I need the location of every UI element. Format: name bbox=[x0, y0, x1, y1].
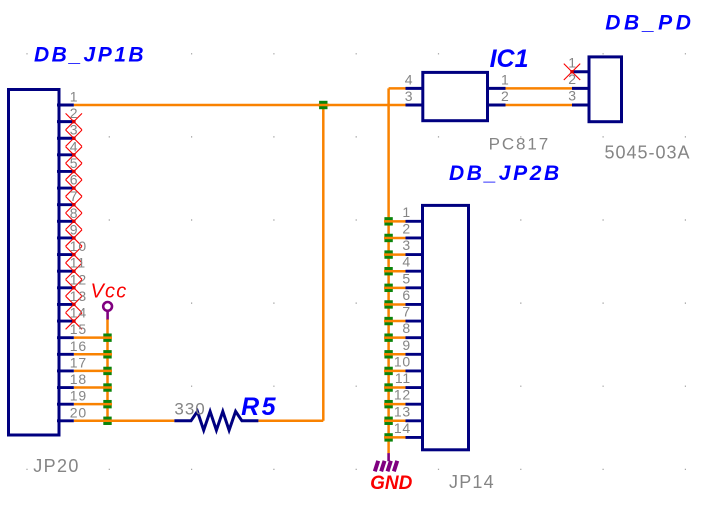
svg-text:11: 11 bbox=[395, 370, 411, 386]
svg-text:2: 2 bbox=[70, 105, 79, 121]
svg-text:20: 20 bbox=[70, 404, 87, 420]
svg-text:1: 1 bbox=[402, 204, 411, 220]
svg-text:7: 7 bbox=[70, 188, 79, 204]
svg-text:4: 4 bbox=[405, 71, 413, 87]
svg-text:6: 6 bbox=[70, 172, 79, 188]
svg-text:18: 18 bbox=[70, 371, 87, 387]
svg-text:1: 1 bbox=[568, 54, 576, 70]
svg-text:12: 12 bbox=[70, 271, 87, 287]
svg-text:Vcc: Vcc bbox=[91, 281, 128, 303]
svg-text:2: 2 bbox=[402, 221, 411, 237]
svg-text:GND: GND bbox=[370, 473, 413, 494]
svg-text:3: 3 bbox=[405, 88, 413, 104]
svg-text:DB_JP2B: DB_JP2B bbox=[449, 162, 562, 185]
svg-text:9: 9 bbox=[402, 337, 411, 353]
svg-text:R5: R5 bbox=[241, 393, 278, 421]
svg-text:10: 10 bbox=[70, 238, 87, 254]
svg-text:JP14: JP14 bbox=[449, 472, 495, 492]
svg-text:15: 15 bbox=[70, 321, 87, 337]
svg-text:11: 11 bbox=[70, 255, 86, 271]
svg-text:16: 16 bbox=[70, 338, 87, 354]
svg-text:5045-03A: 5045-03A bbox=[605, 142, 691, 162]
svg-text:7: 7 bbox=[402, 304, 411, 320]
svg-text:19: 19 bbox=[70, 388, 87, 404]
svg-text:9: 9 bbox=[70, 222, 79, 238]
svg-text:14: 14 bbox=[70, 305, 87, 321]
svg-text:1: 1 bbox=[70, 89, 79, 105]
svg-text:6: 6 bbox=[402, 287, 411, 303]
svg-text:14: 14 bbox=[394, 420, 411, 436]
svg-text:DB_JP1B: DB_JP1B bbox=[34, 44, 146, 67]
svg-text:5: 5 bbox=[402, 270, 411, 286]
svg-text:17: 17 bbox=[70, 354, 87, 370]
svg-text:330: 330 bbox=[174, 399, 205, 418]
svg-text:4: 4 bbox=[70, 138, 79, 154]
svg-text:4: 4 bbox=[402, 254, 411, 270]
svg-text:10: 10 bbox=[394, 353, 411, 369]
svg-text:3: 3 bbox=[70, 122, 79, 138]
svg-text:13: 13 bbox=[394, 403, 411, 419]
svg-text:13: 13 bbox=[70, 288, 87, 304]
svg-text:PC817: PC817 bbox=[489, 135, 550, 154]
svg-text:2: 2 bbox=[568, 71, 576, 87]
svg-text:3: 3 bbox=[568, 88, 576, 104]
svg-text:1: 1 bbox=[501, 71, 509, 87]
svg-text:8: 8 bbox=[402, 320, 411, 336]
svg-text:2: 2 bbox=[501, 88, 509, 104]
svg-text:12: 12 bbox=[394, 387, 411, 403]
svg-text:DB_PD: DB_PD bbox=[605, 11, 694, 34]
svg-text:JP20: JP20 bbox=[33, 456, 80, 476]
svg-text:5: 5 bbox=[70, 155, 79, 171]
svg-text:8: 8 bbox=[70, 205, 79, 221]
svg-text:3: 3 bbox=[402, 237, 411, 253]
svg-text:IC1: IC1 bbox=[490, 45, 529, 73]
